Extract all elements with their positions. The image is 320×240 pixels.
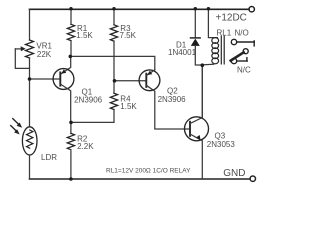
svg-text:2N3053: 2N3053 [207, 140, 236, 149]
node dot rail coil [207, 7, 210, 10]
node dot rail R1 [69, 7, 72, 10]
node dot rail R3 [112, 7, 115, 10]
wire R1 bottom to emitter node [70, 41, 72, 57]
svg-text:LDR: LDR [41, 153, 57, 162]
relay coil loops [212, 38, 219, 44]
VR1 wiper arrow [15, 48, 21, 50]
node dot Q1 collector [69, 121, 73, 125]
wire R3 bottom to Q2 base node [113, 41, 115, 81]
wire Q3 emitter [190, 134, 202, 178]
Q1 emitter arrow [61, 69, 66, 73]
wire emitter bus [70, 56, 155, 70]
wire left rail middle [29, 58, 31, 127]
wire Q3 collector to coil node [201, 65, 203, 117]
node dot rail D1 [194, 7, 197, 10]
svg-text:1.5K: 1.5K [120, 102, 137, 111]
LDR light arrow 2 [11, 126, 16, 131]
node dot Q2 base [113, 79, 117, 83]
wire R4 bottom to Q1 collector node [71, 110, 114, 123]
relay contact N/C [231, 58, 236, 63]
transistor Q1 [53, 69, 74, 90]
transistor Q3 [185, 117, 209, 141]
wire D1 anode to coil node [195, 46, 202, 65]
wire Q1 collector [60, 84, 70, 122]
wire R4 top [113, 81, 115, 93]
wire Q1 base [30, 78, 61, 80]
GND terminal circle [250, 176, 255, 181]
diode D1 [194, 9, 196, 38]
resistor R1 [67, 24, 74, 40]
Q2 emitter arrow [147, 71, 152, 75]
relay RL1 coil feed [208, 9, 217, 37]
wire top rail +12V [30, 8, 249, 10]
svg-text:GND: GND [223, 168, 245, 179]
svg-text:RL1: RL1 [217, 28, 232, 37]
wire bottom rail 0V [30, 178, 250, 180]
svg-text:RL1=12V 200Ω 1C/O RELAY: RL1=12V 200Ω 1C/O RELAY [106, 168, 191, 175]
node dot R2 bottom [69, 177, 73, 181]
LDR [22, 127, 37, 155]
wire Q2 emitter [146, 70, 155, 76]
svg-text:N/C: N/C [237, 66, 251, 75]
wire VR1 wiper return [15, 49, 29, 69]
relay contact N/O [231, 39, 236, 44]
wire R3 top [113, 9, 115, 24]
LDR light arrow 1 [13, 119, 18, 124]
resistor R4 [110, 93, 117, 109]
node dot coil bottom [201, 63, 205, 67]
wire left rail lower [29, 155, 31, 179]
svg-text:N/O: N/O [235, 28, 249, 37]
wire R1 top [70, 9, 72, 24]
wire relay coil bottom [202, 63, 213, 66]
wire Q3 collector [190, 65, 202, 123]
node dot emitters [69, 55, 73, 59]
svg-text:1.5K: 1.5K [76, 31, 93, 40]
svg-text:7.5K: 7.5K [120, 31, 137, 40]
wire Q2 base [115, 80, 147, 82]
resistor R2 [70, 122, 72, 133]
svg-text:+12DC: +12DC [216, 13, 247, 24]
svg-text:2N3906: 2N3906 [158, 95, 187, 104]
+12DC terminal circle [249, 7, 254, 12]
relay armature [231, 52, 244, 60]
svg-text:2N3906: 2N3906 [74, 96, 103, 105]
svg-text:22K: 22K [37, 50, 52, 59]
svg-text:1N4001: 1N4001 [168, 48, 197, 57]
node dot Q1 base tap [28, 77, 32, 81]
wire Q2 collector to Q3 base [146, 85, 190, 129]
resistor R3 [110, 25, 117, 41]
relay core lines [220, 36, 222, 64]
wire Q1 emitter [60, 56, 70, 74]
Q3 emitter arrow [196, 135, 200, 140]
svg-text:2.2K: 2.2K [77, 142, 94, 151]
potentiometer VR1 zigzag [26, 40, 34, 58]
wire left rail upper [29, 9, 31, 40]
transistor Q2 [139, 70, 160, 91]
